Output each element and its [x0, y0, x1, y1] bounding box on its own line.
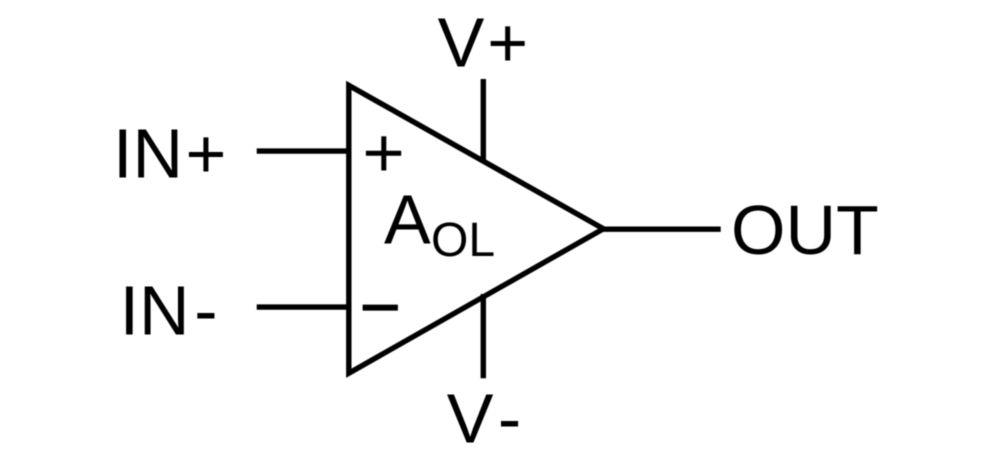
- svg-text:+: +: [487, 3, 528, 81]
- svg-text:V: V: [447, 380, 494, 458]
- svg-text:IN: IN: [113, 115, 183, 193]
- svg-text:OUT: OUT: [731, 191, 879, 269]
- svg-text:+: +: [186, 115, 227, 193]
- svg-text:OL: OL: [431, 214, 495, 267]
- svg-text:-: -: [194, 272, 217, 350]
- svg-text:V: V: [438, 3, 485, 81]
- svg-text:IN: IN: [120, 272, 190, 350]
- svg-text:-: -: [498, 380, 521, 458]
- svg-text:A: A: [384, 181, 431, 259]
